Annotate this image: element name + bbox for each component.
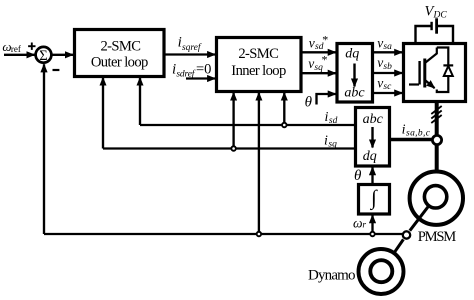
svg-text:dq: dq bbox=[363, 149, 377, 164]
svg-text:sq: sq bbox=[328, 139, 337, 149]
svg-text:abc: abc bbox=[363, 112, 384, 127]
svg-text:i: i bbox=[402, 123, 406, 138]
svg-text:sd: sd bbox=[329, 116, 338, 126]
svg-text:i: i bbox=[324, 134, 328, 149]
svg-text:v: v bbox=[377, 76, 383, 91]
svg-text:i: i bbox=[325, 110, 329, 125]
svg-text:Σ: Σ bbox=[39, 48, 47, 64]
svg-text:*: * bbox=[322, 53, 328, 67]
svg-text:Inner loop: Inner loop bbox=[231, 63, 286, 79]
svg-text:sa: sa bbox=[383, 42, 392, 52]
svg-text:v: v bbox=[377, 55, 383, 70]
svg-text:abc: abc bbox=[344, 85, 365, 100]
svg-text:2-SMC: 2-SMC bbox=[238, 46, 279, 62]
svg-text:sa,b,c: sa,b,c bbox=[406, 128, 431, 138]
svg-text:*: * bbox=[322, 33, 328, 47]
svg-text:v: v bbox=[309, 35, 315, 50]
svg-text:θ: θ bbox=[354, 168, 362, 184]
svg-text:PMSM: PMSM bbox=[418, 229, 457, 245]
svg-text:sc: sc bbox=[383, 82, 392, 92]
svg-text:θ: θ bbox=[305, 94, 313, 110]
svg-text:2-SMC: 2-SMC bbox=[100, 38, 141, 54]
svg-text:ref: ref bbox=[11, 44, 21, 54]
svg-text:v: v bbox=[308, 56, 314, 71]
svg-text:dq: dq bbox=[345, 46, 359, 61]
svg-text:Dynamo: Dynamo bbox=[308, 268, 356, 284]
svg-text:DC: DC bbox=[433, 11, 448, 21]
svg-text:=0: =0 bbox=[196, 61, 211, 77]
svg-text:r: r bbox=[362, 221, 366, 231]
svg-text:sb: sb bbox=[383, 62, 392, 72]
svg-text:sdref: sdref bbox=[176, 69, 195, 80]
svg-text:∫: ∫ bbox=[369, 185, 378, 210]
svg-text:v: v bbox=[377, 36, 383, 51]
svg-text:Outer loop: Outer loop bbox=[91, 54, 149, 70]
svg-text:ω: ω bbox=[353, 216, 363, 231]
svg-text:sqref: sqref bbox=[182, 42, 202, 53]
